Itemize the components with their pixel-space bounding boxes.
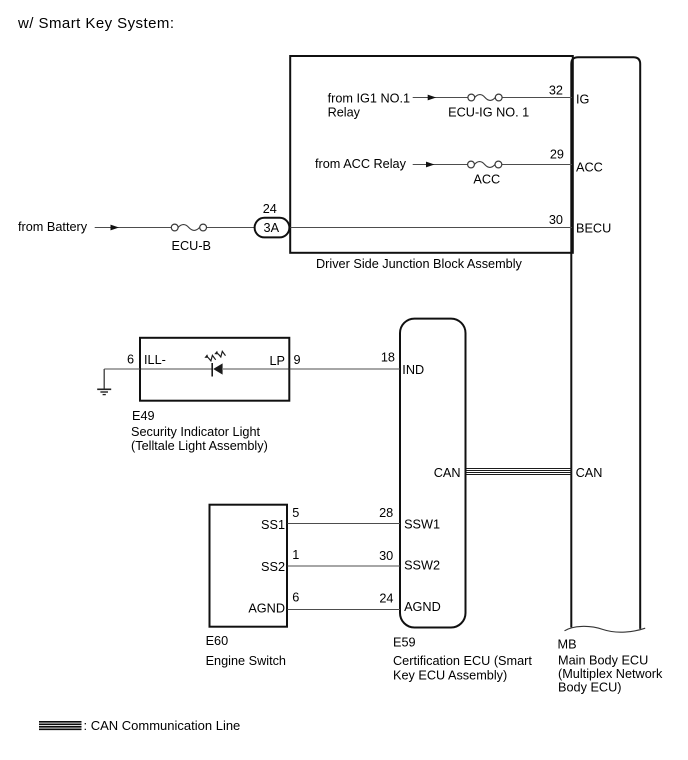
fuse ECU-B — [171, 224, 211, 253]
svg-text:w/ Smart Key System:: w/ Smart Key System: — [17, 15, 174, 32]
svg-text:30: 30 — [549, 213, 563, 227]
pin 24 AGND — [379, 592, 440, 615]
pin 30 SSW2 — [379, 549, 440, 573]
LED lamp inside E49 — [141, 351, 289, 377]
svg-text:24: 24 — [379, 592, 393, 606]
fuse ECU-IG NO. 1 — [448, 94, 529, 119]
pin 29 ACC — [550, 148, 603, 175]
pin AGND 6 — [248, 591, 299, 616]
wire: battery feed to BECU — [18, 220, 572, 234]
svg-text:CAN: CAN — [576, 466, 603, 480]
svg-text:E59: E59 — [393, 635, 416, 649]
pin 6 ILL- — [127, 353, 166, 368]
svg-text:AGND: AGND — [404, 600, 441, 614]
wire: SS1 to SSW1 — [288, 523, 401, 525]
arrow on IG wire — [428, 95, 437, 101]
svg-text:AGND: AGND — [248, 602, 285, 616]
svg-text:SS2: SS2 — [261, 560, 285, 574]
breaker 3A stadium with pin 24 — [255, 202, 290, 237]
svg-text:MB: MB — [558, 638, 577, 652]
svg-text:LP: LP — [269, 354, 285, 368]
svg-text:28: 28 — [379, 506, 393, 520]
svg-text:Driver Side Junction Block Ass: Driver Side Junction Block Assembly — [316, 257, 523, 271]
svg-text:IND: IND — [402, 363, 424, 377]
arrow on battery wire — [111, 225, 120, 231]
svg-text:from ACC Relay: from ACC Relay — [315, 157, 407, 171]
svg-text:Body ECU): Body ECU) — [558, 681, 621, 695]
wire: E49 LP to E59 IND — [290, 368, 401, 370]
wire: SS2 to SSW2 — [288, 565, 401, 567]
svg-text:6: 6 — [127, 353, 134, 367]
svg-text:Relay: Relay — [328, 105, 361, 119]
svg-text:9: 9 — [294, 353, 301, 367]
pin SS2 1 — [261, 548, 299, 574]
engine switch E60 box — [206, 505, 287, 668]
svg-text:3A: 3A — [264, 221, 280, 235]
svg-text:ILL-: ILL- — [144, 353, 166, 367]
svg-text:ACC: ACC — [576, 161, 603, 175]
svg-text:Key ECU Assembly): Key ECU Assembly) — [393, 668, 507, 682]
svg-text:IG: IG — [576, 93, 589, 107]
svg-text:32: 32 — [549, 84, 563, 98]
wire: AGND — [288, 609, 401, 611]
svg-text:(Multiplex Network: (Multiplex Network — [558, 667, 663, 681]
svg-text:Main Body ECU: Main Body ECU — [558, 654, 648, 668]
wire: ACC feed — [315, 157, 572, 171]
svg-text:Engine Switch: Engine Switch — [206, 654, 286, 668]
arrow on ACC wire — [426, 162, 435, 168]
security indicator light E49 box — [131, 338, 289, 453]
svg-text:ECU-B: ECU-B — [172, 239, 211, 253]
svg-text:SS1: SS1 — [261, 518, 285, 532]
svg-text:5: 5 — [292, 506, 299, 520]
certification ECU E59 box — [393, 319, 532, 683]
pin SS1 5 — [261, 506, 299, 532]
svg-text:29: 29 — [550, 148, 564, 162]
svg-text:from IG1 NO.1: from IG1 NO.1 — [328, 92, 411, 106]
wire: ground to E49 ILL- — [104, 368, 140, 370]
svg-text:E49: E49 — [132, 409, 155, 423]
svg-text:SSW2: SSW2 — [404, 559, 440, 573]
svg-text:18: 18 — [381, 351, 395, 365]
svg-text:ECU-IG NO. 1: ECU-IG NO. 1 — [448, 105, 529, 119]
svg-text:30: 30 — [379, 549, 393, 563]
svg-text:from Battery: from Battery — [18, 220, 88, 234]
svg-text:SSW1: SSW1 — [404, 518, 440, 532]
svg-text:BECU: BECU — [576, 222, 611, 236]
CAN bus band between E59 and MB — [466, 469, 572, 475]
svg-text:: CAN Communication Line: : CAN Communication Line — [84, 718, 241, 733]
svg-text:(Telltale Light Assembly): (Telltale Light Assembly) — [131, 439, 268, 453]
legend: CAN communication line symbol — [39, 718, 240, 733]
svg-text:1: 1 — [292, 548, 299, 562]
main body ECU MB box — [558, 57, 663, 694]
wire: IG feed — [328, 92, 572, 120]
svg-text:Security Indicator Light: Security Indicator Light — [131, 425, 261, 439]
svg-text:E60: E60 — [206, 634, 229, 648]
fuse ACC — [468, 161, 502, 186]
svg-text:24: 24 — [263, 202, 277, 216]
svg-text:CAN: CAN — [434, 466, 461, 480]
junction block: Driver Side Junction Block Assembly — [290, 56, 573, 271]
pin 32 IG — [549, 84, 590, 107]
pin 30 BECU — [549, 213, 611, 236]
svg-text:6: 6 — [292, 591, 299, 605]
svg-text:ACC: ACC — [473, 173, 500, 187]
pin 18 IND — [381, 351, 424, 378]
svg-text:Certification ECU (Smart: Certification ECU (Smart — [393, 654, 532, 668]
pin 28 SSW1 — [379, 506, 440, 532]
pin LP 9 — [269, 353, 300, 368]
ground — [97, 369, 111, 395]
